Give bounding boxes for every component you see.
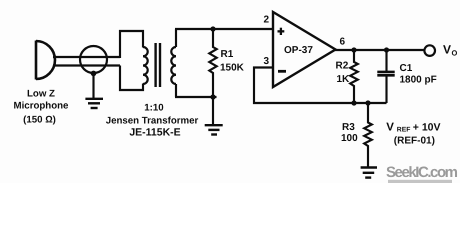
node feedback rail / R3 top bbox=[365, 100, 370, 105]
op-amp minus sign bbox=[278, 70, 286, 73]
svg-text:R1: R1 bbox=[221, 49, 234, 60]
svg-text:REF: REF bbox=[397, 126, 411, 133]
op-amp plus sign bbox=[278, 28, 285, 35]
svg-text:R2: R2 bbox=[336, 61, 349, 72]
svg-text:1800 pF: 1800 pF bbox=[400, 75, 437, 86]
svg-text:100: 100 bbox=[341, 133, 358, 144]
shielded connector circle bbox=[80, 46, 107, 73]
wire bottom rail bbox=[175, 96, 217, 98]
svg-text:6: 6 bbox=[340, 36, 346, 47]
svg-text:R3: R3 bbox=[342, 122, 355, 133]
wire secondary top lead bbox=[175, 29, 177, 47]
node output / R2 top bbox=[351, 47, 356, 52]
capacitor C1 bbox=[385, 50, 387, 71]
resistor R1 bbox=[209, 29, 216, 97]
svg-text:+ 10V: + 10V bbox=[413, 121, 441, 133]
svg-text:V: V bbox=[443, 43, 451, 57]
wire mic bottom conductor bbox=[53, 64, 120, 66]
node top rail / R1 bbox=[210, 26, 215, 31]
junction dot on shield bbox=[91, 71, 97, 77]
op-amp U1 OP-37 bbox=[273, 12, 336, 87]
svg-text:OP-37: OP-37 bbox=[284, 45, 313, 56]
svg-text:C1: C1 bbox=[400, 63, 413, 74]
svg-text:1:10: 1:10 bbox=[144, 102, 163, 113]
node feedback rail / R2 bottom bbox=[351, 100, 356, 105]
resistor R2 bbox=[350, 50, 358, 103]
svg-text:V: V bbox=[386, 121, 394, 133]
ground under R1 bbox=[205, 125, 223, 134]
svg-text:O: O bbox=[452, 49, 458, 58]
wire step-up to transformer primary top bbox=[120, 31, 143, 58]
svg-text:1K: 1K bbox=[337, 74, 351, 85]
ground under R3 bbox=[361, 168, 377, 178]
node bottom rail / R1 bbox=[210, 94, 215, 99]
wire step-down to transformer primary bottom bbox=[120, 66, 143, 91]
transformer T1 secondary winding bbox=[171, 47, 176, 84]
transformer T1 primary winding bbox=[143, 47, 148, 84]
watermark clipped second line bbox=[388, 180, 452, 183]
svg-text:Jensen Transformer: Jensen Transformer bbox=[106, 115, 199, 126]
wire pin 3 feedback down and bottom feedback rail bbox=[254, 68, 387, 104]
svg-text:3: 3 bbox=[263, 56, 269, 67]
ground (shield) bbox=[85, 99, 103, 108]
svg-text:(REF-01): (REF-01) bbox=[394, 136, 435, 147]
svg-text:JE-115K-E: JE-115K-E bbox=[129, 127, 180, 139]
svg-text:(150 Ω): (150 Ω) bbox=[23, 115, 56, 126]
wire mic top conductor bbox=[53, 56, 120, 58]
svg-text:2: 2 bbox=[263, 15, 269, 26]
wire secondary bottom lead bbox=[175, 84, 177, 97]
microphone MK1 bbox=[36, 41, 55, 80]
output terminal Vo bbox=[424, 45, 435, 56]
svg-text:150K: 150K bbox=[220, 63, 245, 74]
resistor R3 bbox=[364, 103, 372, 167]
wire top rail to op-amp pin 2 bbox=[175, 28, 273, 30]
transformer core bbox=[156, 43, 160, 87]
svg-text:SeekIC.com: SeekIC.com bbox=[386, 164, 458, 181]
wire R1 to ground bbox=[212, 97, 214, 124]
svg-text:Microphone: Microphone bbox=[14, 100, 70, 111]
svg-text:Low Z: Low Z bbox=[27, 88, 55, 99]
node output / C1 top bbox=[384, 47, 389, 52]
wire shield to ground bbox=[92, 73, 94, 98]
wire output pin 6 to terminal bbox=[335, 49, 424, 51]
